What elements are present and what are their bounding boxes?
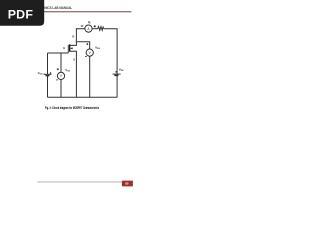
svg-text:PDF: PDF bbox=[8, 8, 34, 22]
svg-text:G: G bbox=[63, 46, 65, 50]
svg-text:S: S bbox=[73, 57, 75, 61]
svg-text:RONICS LAB MANUAL: RONICS LAB MANUAL bbox=[40, 6, 72, 10]
svg-text:85: 85 bbox=[125, 181, 129, 185]
svg-text:D: D bbox=[72, 35, 74, 39]
svg-text:Fig. 3: Circuit diagram for MO: Fig. 3: Circuit diagram for MOSFET Chara… bbox=[45, 106, 99, 110]
